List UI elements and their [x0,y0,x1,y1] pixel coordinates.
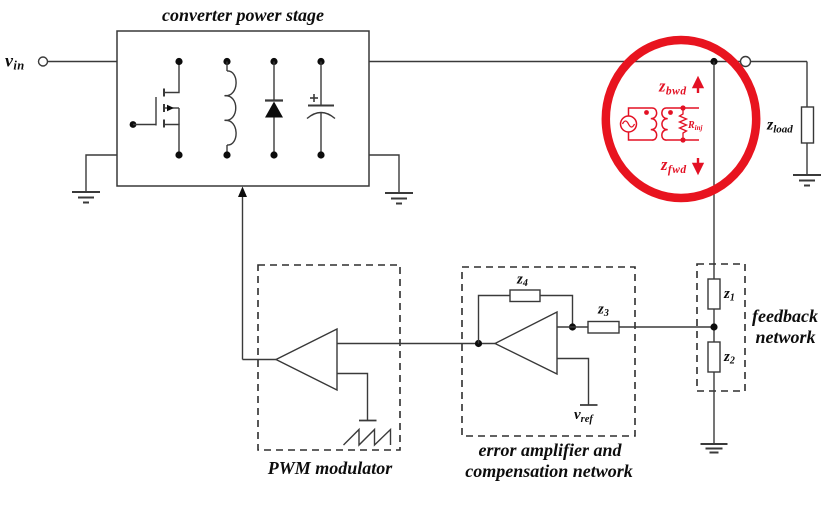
svg-text:vref: vref [574,407,594,425]
svg-text:z3: z3 [597,302,609,320]
resistor Z3 [588,322,619,334]
ground feedback [701,444,728,453]
resistor Z1 [708,279,720,309]
wire left ground stub [86,155,117,192]
sawtooth waveform [344,430,391,446]
wire main vertical feedback line [713,62,715,280]
diode D1 [265,58,283,159]
PWM modulator dashed box [258,265,400,450]
ground zload [793,175,821,186]
svg-text:Rinj: Rinj [687,120,703,132]
wire z4 to input node [540,296,573,328]
wire comparator ramp input [337,374,368,421]
inductor L1 [223,58,236,159]
PWM drive wire with arrow [242,194,244,360]
svg-text:zbwd: zbwd [658,77,687,98]
output terminal circle [741,57,751,67]
resistor Z2 [708,342,720,372]
resistor Zload [802,107,814,143]
op-amp U2 comparator [276,329,337,390]
svg-text:network: network [755,327,815,347]
wire vref input [557,359,589,406]
resistor Z4 [510,290,540,302]
wire z1 to z2 [713,309,715,342]
wire right ground stub [369,155,399,193]
wire z2 to ground [713,372,715,444]
error amplifier dashed box [462,267,635,436]
injection source Vinj [621,116,637,132]
svg-text:compensation network: compensation network [465,461,633,481]
converter power stage box [117,31,369,186]
transistor Q1 (MOSFET) [130,58,183,159]
node junction on rail [710,58,717,65]
wire vin to box [48,61,118,63]
input terminal circle [39,57,48,66]
wire source to primary [629,108,652,116]
wire to z_load [806,62,808,108]
wire secondary bottom [667,139,699,141]
red marker circle [606,40,756,198]
svg-text:z1: z1 [723,286,735,304]
ground left [72,192,100,203]
op-amp U1 error amplifier [495,312,557,374]
wire comparator output [243,359,277,361]
svg-text:converter power stage: converter power stage [162,5,324,25]
transformer T1 primary [651,108,657,140]
primary phase dot [644,110,649,115]
svg-text:error amplifier and: error amplifier and [478,440,622,460]
wire feedback z4 path [479,296,511,344]
node inverting input [569,323,576,330]
capacitor C1 [307,58,335,159]
wire z3 to feedback node [619,326,714,328]
wire zload to ground [806,143,808,175]
wire error amp output to comparator [337,343,495,345]
wire input to z3 [557,326,588,328]
secondary phase dot [668,110,673,115]
ramp reference bar [359,420,377,422]
svg-text:vin: vin [5,51,25,73]
vref terminal bar [580,404,598,406]
ground right [385,193,413,204]
transformer T1 secondary [662,108,668,140]
wire top rail [369,61,807,63]
node output of error amp [475,340,482,347]
node rinj bottom [680,137,685,142]
svg-text:z4: z4 [516,272,528,290]
wire secondary top [667,107,699,109]
node feedback tap [710,323,717,330]
svg-text:PWM modulator: PWM modulator [267,458,394,478]
svg-text:zfwd: zfwd [660,155,687,176]
resistor Rinj [680,108,687,140]
feedback network dashed box [697,264,745,391]
node rinj top [680,105,685,110]
svg-text:z2: z2 [723,349,735,367]
svg-text:feedback: feedback [752,306,818,326]
svg-text:zload: zload [766,117,793,136]
